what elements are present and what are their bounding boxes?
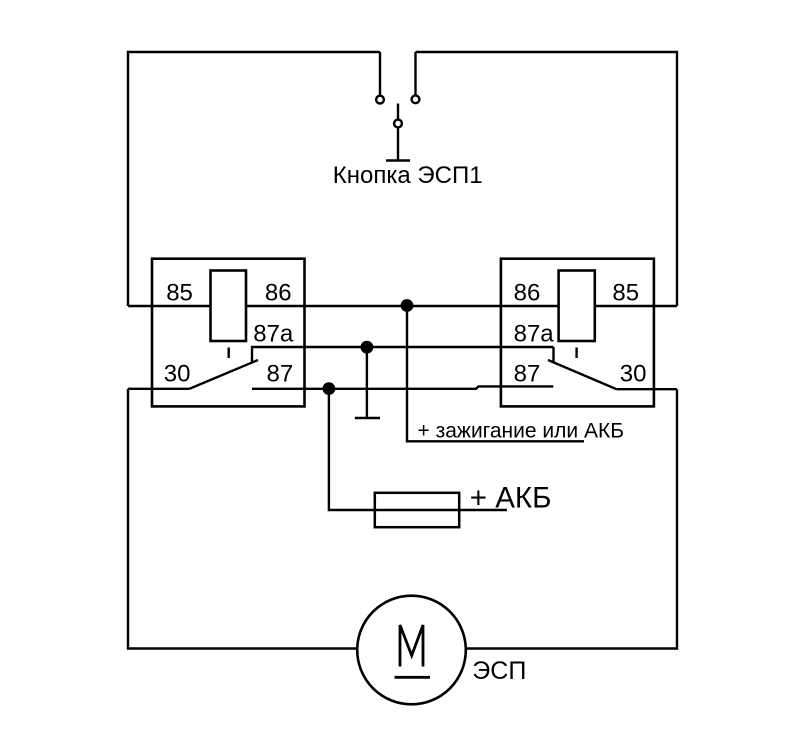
ground stub wire from node 87a <box>366 347 368 418</box>
svg-text:Кнопка ЭСП1: Кнопка ЭСП1 <box>333 162 483 189</box>
svg-text:86: 86 <box>265 279 292 306</box>
relay K1 contact 87a hook <box>252 347 554 363</box>
motor M1 underline <box>395 676 431 679</box>
relay K1 switch arm 30-87a <box>189 360 258 389</box>
junction node 86 dot <box>401 299 414 312</box>
wire 85 left <box>128 305 211 307</box>
motor M1 circle <box>357 596 466 705</box>
button SW1 cap bar <box>386 159 410 161</box>
wire 86 to 86 center <box>246 305 559 307</box>
junction node 87a dot <box>361 341 374 354</box>
motor M1 letter M <box>400 625 423 667</box>
svg-text:85: 85 <box>166 279 193 306</box>
button SW1 left contact circle <box>376 96 384 104</box>
svg-text:ЭСП: ЭСП <box>472 657 526 685</box>
junction node 87 dot <box>323 382 336 395</box>
wire top right segment <box>416 52 678 306</box>
wire top left segment <box>128 52 380 306</box>
relay K2 coil <box>559 271 595 342</box>
wire 87 to 87 center <box>252 386 553 388</box>
svg-text:86: 86 <box>514 279 541 306</box>
svg-text:30: 30 <box>620 361 647 388</box>
svg-text:87a: 87a <box>514 321 555 348</box>
relay K2 armature tick <box>575 348 577 359</box>
relay K1 coil <box>211 271 247 342</box>
svg-text:+ АКБ: + АКБ <box>470 482 552 515</box>
svg-text:87: 87 <box>267 361 294 388</box>
wire bottom right to motor <box>466 389 677 648</box>
wire 85 right <box>595 305 677 307</box>
svg-text:87a: 87a <box>253 321 294 348</box>
relay K1 armature tick <box>227 348 229 359</box>
button SW1 right contact circle <box>412 95 420 103</box>
button SW1 left terminal drop <box>379 52 381 96</box>
relay K2 switch arm 30-87a <box>548 360 617 389</box>
wire 30 left <box>128 388 189 390</box>
svg-text:30: 30 <box>164 361 191 388</box>
relay K1 body <box>152 259 305 407</box>
relay K2 body <box>501 259 654 407</box>
wire ignition drop from node 86 <box>407 306 584 441</box>
ground bar <box>355 417 380 419</box>
wire 30 right <box>617 388 678 390</box>
wire battery drop from node 87 <box>329 389 507 510</box>
svg-text:+ зажигание или АКБ: + зажигание или АКБ <box>418 419 624 442</box>
wire bottom left to motor <box>128 389 357 649</box>
button SW1 right terminal drop <box>414 52 416 95</box>
button SW1 actuator stem <box>397 104 399 161</box>
svg-text:85: 85 <box>612 279 639 306</box>
svg-text:87: 87 <box>514 361 541 388</box>
fuse F1 body <box>375 493 459 527</box>
relay K2 contact 87a hook <box>552 347 554 363</box>
button SW1 actuator circle <box>394 120 402 128</box>
